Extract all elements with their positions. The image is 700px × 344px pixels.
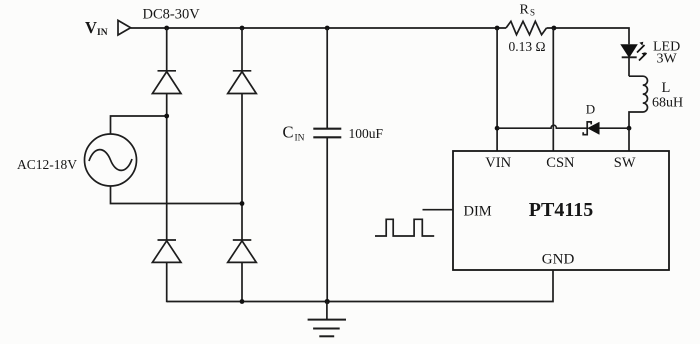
- svg-text:GND: GND: [542, 252, 575, 268]
- wire LED to inductor: [628, 57, 630, 76]
- diode D2 top-right of bridge: [228, 71, 257, 94]
- wire D diode left with hop over CSN: [497, 125, 587, 128]
- diode D schottky: [583, 122, 599, 135]
- wire VIN pin line: [496, 28, 498, 151]
- svg-text:PT4115: PT4115: [529, 199, 593, 221]
- wire CSN pin line: [552, 28, 554, 151]
- svg-text:IN: IN: [295, 133, 305, 143]
- svg-text:SW: SW: [614, 155, 636, 171]
- node SW freewheel junction: [627, 126, 632, 131]
- pin label VIN: [485, 155, 511, 171]
- wire SW pin line: [628, 128, 630, 151]
- svg-text:S: S: [530, 8, 535, 18]
- label PT4115: [529, 199, 593, 221]
- label L: [662, 80, 671, 96]
- input terminal VIN triangle: [118, 20, 131, 35]
- wire AC bottom lead: [111, 186, 243, 204]
- svg-text:R: R: [520, 3, 530, 18]
- svg-text:68uH: 68uH: [652, 95, 683, 110]
- diode D4 bottom-right of bridge: [228, 240, 257, 262]
- svg-text:V: V: [85, 18, 97, 37]
- svg-text:CSN: CSN: [546, 155, 575, 171]
- svg-text:AC12-18V: AC12-18V: [17, 157, 77, 172]
- node capacitor top: [325, 26, 330, 31]
- label VIN: [85, 18, 108, 38]
- wire GND pin down: [167, 270, 553, 302]
- wire top right segment: [547, 28, 630, 44]
- pin label GND: [542, 252, 575, 268]
- svg-text:100uF: 100uF: [349, 126, 384, 141]
- wire AC top lead: [111, 116, 167, 134]
- wire DIM input: [423, 209, 454, 211]
- resistor RS: [506, 21, 547, 34]
- label 100uF: [349, 126, 384, 141]
- svg-text:0.13 Ω: 0.13 Ω: [509, 39, 546, 54]
- wire left column: [166, 28, 168, 302]
- wire D cathode to SW: [599, 127, 629, 129]
- svg-text:DC8-30V: DC8-30V: [143, 7, 201, 23]
- label CIN: [283, 122, 305, 143]
- label 3W: [657, 52, 678, 67]
- label DC8-30V: [143, 7, 201, 23]
- pin label DIM: [464, 204, 492, 220]
- label 68uH: [652, 95, 683, 110]
- node AC bottom to right column: [240, 201, 245, 206]
- AC source: [85, 134, 137, 186]
- svg-text:IN: IN: [97, 28, 108, 38]
- label LED: [653, 39, 680, 54]
- node bottom bus ground: [325, 299, 330, 304]
- svg-text:D: D: [586, 101, 595, 116]
- svg-text:3W: 3W: [657, 52, 678, 67]
- label D: [586, 101, 595, 116]
- node bottom bus right column: [240, 299, 245, 304]
- wire top bus: [131, 27, 506, 29]
- label AC12-18V: [17, 157, 77, 172]
- op-amp U1 PT4115 box: [453, 151, 669, 270]
- capacitor CIN: [313, 28, 341, 302]
- LED: [621, 42, 646, 61]
- diode D3 bottom-left of bridge: [152, 240, 181, 262]
- node top-right column: [240, 26, 245, 31]
- svg-text:DIM: DIM: [464, 204, 492, 220]
- svg-text:L: L: [662, 80, 671, 96]
- svg-text:C: C: [283, 122, 294, 141]
- node resistor right: [552, 26, 557, 31]
- pin label SW: [614, 155, 636, 171]
- label 0.13 ohm: [509, 39, 546, 54]
- node AC top to left column: [164, 114, 169, 119]
- diode D1 top-left of bridge: [152, 71, 181, 94]
- pin label CSN: [546, 155, 575, 171]
- node resistor left: [495, 26, 500, 31]
- node D anode on VIN line: [495, 126, 500, 131]
- inductor L: [629, 76, 647, 128]
- label RS: [520, 3, 536, 18]
- ground: [308, 302, 346, 337]
- wire right column: [241, 28, 243, 302]
- svg-text:VIN: VIN: [485, 155, 511, 171]
- DIM pulse waveform: [375, 219, 434, 236]
- node top-left column: [164, 26, 169, 31]
